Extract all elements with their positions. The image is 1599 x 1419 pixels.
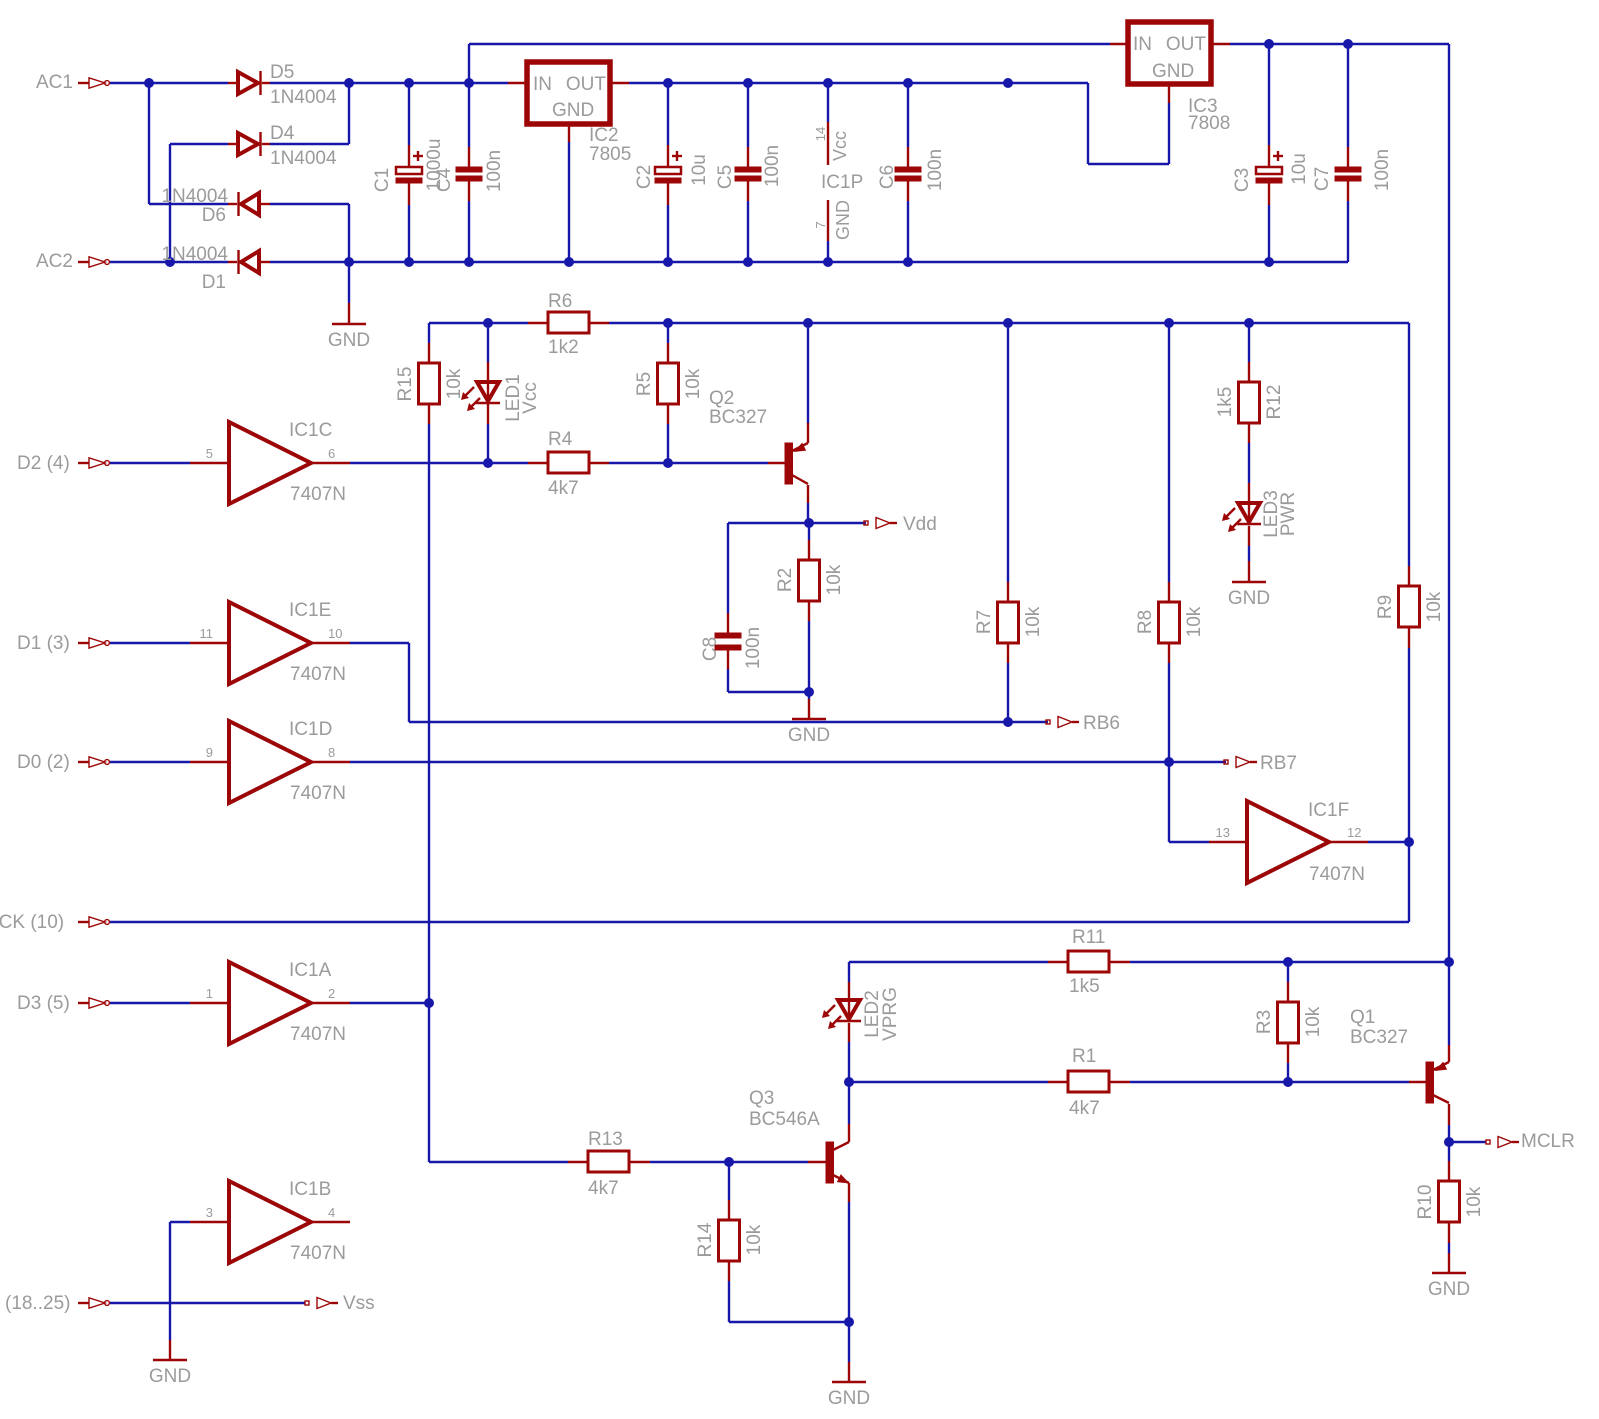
svg-text:D5: D5 bbox=[270, 62, 294, 83]
svg-text:(18..25): (18..25) bbox=[5, 1293, 70, 1314]
svg-text:PWR: PWR bbox=[1278, 492, 1299, 536]
svg-text:1N4004: 1N4004 bbox=[270, 148, 337, 169]
svg-text:GND: GND bbox=[833, 200, 853, 240]
svg-text:R4: R4 bbox=[548, 429, 573, 450]
svg-text:10k: 10k bbox=[824, 564, 845, 595]
svg-text:R15: R15 bbox=[395, 367, 416, 402]
svg-text:4k7: 4k7 bbox=[1069, 1098, 1100, 1119]
svg-text:10k: 10k bbox=[1184, 606, 1205, 637]
svg-text:Vcc: Vcc bbox=[830, 131, 850, 161]
svg-text:R13: R13 bbox=[588, 1129, 623, 1150]
svg-text:7805: 7805 bbox=[589, 144, 631, 165]
svg-text:100n: 100n bbox=[762, 145, 783, 187]
svg-text:C1: C1 bbox=[372, 168, 393, 192]
svg-text:Q2: Q2 bbox=[709, 388, 734, 409]
svg-text:IC1B: IC1B bbox=[289, 1179, 331, 1200]
svg-text:GND: GND bbox=[1428, 1279, 1470, 1300]
svg-text:C2: C2 bbox=[634, 165, 655, 189]
svg-text:IC1D: IC1D bbox=[289, 719, 332, 740]
svg-text:7407N: 7407N bbox=[290, 1243, 346, 1264]
svg-text:R8: R8 bbox=[1135, 610, 1156, 634]
svg-text:Q3: Q3 bbox=[749, 1088, 774, 1109]
svg-text:1N4004: 1N4004 bbox=[161, 244, 228, 265]
svg-text:IC1E: IC1E bbox=[289, 600, 331, 621]
svg-text:R12: R12 bbox=[1264, 385, 1285, 420]
svg-text:1N4004: 1N4004 bbox=[270, 87, 337, 108]
svg-text:7407N: 7407N bbox=[290, 484, 346, 505]
svg-text:10k: 10k bbox=[1303, 1006, 1324, 1037]
svg-text:D1: D1 bbox=[202, 272, 226, 293]
svg-text:C8: C8 bbox=[700, 637, 721, 661]
svg-text:R2: R2 bbox=[775, 568, 796, 592]
svg-text:BC546A: BC546A bbox=[749, 1109, 820, 1130]
svg-text:10u: 10u bbox=[1289, 153, 1310, 185]
svg-text:MCLR: MCLR bbox=[1521, 1131, 1575, 1152]
svg-text:1k5: 1k5 bbox=[1069, 976, 1100, 997]
svg-text:100n: 100n bbox=[484, 150, 505, 192]
svg-text:Vss: Vss bbox=[343, 1293, 375, 1314]
svg-text:C5: C5 bbox=[715, 165, 736, 189]
svg-text:1: 1 bbox=[206, 986, 213, 1001]
svg-text:D2 (4): D2 (4) bbox=[17, 453, 70, 474]
svg-text:GND: GND bbox=[552, 100, 594, 121]
svg-text:8: 8 bbox=[328, 745, 335, 760]
svg-text:10k: 10k bbox=[1023, 606, 1044, 637]
svg-text:D4: D4 bbox=[270, 123, 295, 144]
svg-text:10k: 10k bbox=[683, 368, 704, 399]
svg-text:IC2: IC2 bbox=[589, 125, 619, 146]
svg-text:4k7: 4k7 bbox=[548, 478, 579, 499]
svg-text:R7: R7 bbox=[974, 610, 995, 634]
svg-text:C4: C4 bbox=[434, 167, 455, 192]
svg-text:4k7: 4k7 bbox=[588, 1178, 619, 1199]
svg-text:R3: R3 bbox=[1254, 1010, 1275, 1034]
svg-text:VPRG: VPRG bbox=[880, 987, 901, 1041]
svg-text:OUT: OUT bbox=[1166, 34, 1207, 55]
svg-text:D1 (3): D1 (3) bbox=[17, 633, 70, 654]
svg-text:3: 3 bbox=[206, 1205, 213, 1220]
svg-text:RB7: RB7 bbox=[1260, 753, 1297, 774]
svg-text:C7: C7 bbox=[1312, 167, 1333, 191]
svg-text:GND: GND bbox=[149, 1366, 191, 1387]
svg-text:5: 5 bbox=[206, 446, 213, 461]
svg-text:IC1C: IC1C bbox=[289, 420, 332, 441]
svg-text:BC327: BC327 bbox=[1350, 1027, 1408, 1048]
svg-text:D3 (5): D3 (5) bbox=[17, 993, 70, 1014]
svg-text:4: 4 bbox=[328, 1205, 335, 1220]
svg-text:Q1: Q1 bbox=[1350, 1007, 1375, 1028]
svg-text:1N4004: 1N4004 bbox=[161, 186, 228, 207]
svg-text:1k2: 1k2 bbox=[548, 337, 579, 358]
svg-text:D6: D6 bbox=[202, 205, 226, 226]
svg-text:100n: 100n bbox=[1372, 149, 1393, 191]
svg-text:7407N: 7407N bbox=[290, 664, 346, 685]
svg-text:IC1F: IC1F bbox=[1308, 800, 1349, 821]
svg-text:C6: C6 bbox=[877, 165, 898, 189]
svg-text:7407N: 7407N bbox=[1309, 864, 1365, 885]
svg-text:10u: 10u bbox=[689, 154, 710, 186]
svg-text:R11: R11 bbox=[1072, 927, 1105, 948]
svg-text:12: 12 bbox=[1347, 825, 1361, 840]
svg-text:IC1P: IC1P bbox=[821, 172, 863, 193]
svg-text:10k: 10k bbox=[744, 1224, 765, 1255]
svg-text:2: 2 bbox=[328, 986, 335, 1001]
svg-text:AC2: AC2 bbox=[36, 251, 73, 272]
svg-text:BC327: BC327 bbox=[709, 407, 767, 428]
svg-text:R6: R6 bbox=[548, 291, 572, 312]
svg-text:6: 6 bbox=[328, 446, 335, 461]
svg-text:10k: 10k bbox=[1424, 591, 1445, 622]
svg-text:100n: 100n bbox=[743, 627, 764, 669]
svg-text:RB6: RB6 bbox=[1083, 713, 1120, 734]
svg-text:GND: GND bbox=[828, 1388, 870, 1409]
svg-text:11: 11 bbox=[200, 626, 214, 641]
svg-text:9: 9 bbox=[206, 745, 213, 760]
svg-text:13: 13 bbox=[1216, 825, 1230, 840]
svg-text:IN: IN bbox=[533, 74, 552, 95]
svg-text:7808: 7808 bbox=[1188, 113, 1230, 134]
svg-text:OUT: OUT bbox=[566, 74, 607, 95]
svg-text:Vcc: Vcc bbox=[520, 382, 541, 414]
svg-text:R9: R9 bbox=[1375, 595, 1396, 619]
svg-text:GND: GND bbox=[1152, 61, 1194, 82]
svg-text:10: 10 bbox=[328, 626, 342, 641]
svg-text:R5: R5 bbox=[634, 372, 655, 396]
svg-text:7: 7 bbox=[813, 221, 828, 228]
svg-text:IC1A: IC1A bbox=[289, 960, 332, 981]
svg-text:10k: 10k bbox=[1464, 1186, 1485, 1217]
svg-text:GND: GND bbox=[1228, 588, 1270, 609]
svg-text:IN: IN bbox=[1133, 34, 1152, 55]
svg-text:R14: R14 bbox=[695, 1222, 716, 1257]
svg-text:7407N: 7407N bbox=[290, 783, 346, 804]
svg-text:7407N: 7407N bbox=[290, 1024, 346, 1045]
svg-text:AC1: AC1 bbox=[36, 72, 73, 93]
svg-text:100n: 100n bbox=[925, 149, 946, 191]
svg-text:ACK (10): ACK (10) bbox=[0, 912, 64, 933]
svg-text:14: 14 bbox=[813, 127, 828, 141]
svg-text:GND: GND bbox=[328, 330, 370, 351]
svg-text:GND: GND bbox=[788, 725, 830, 746]
svg-text:D0 (2): D0 (2) bbox=[17, 752, 70, 773]
svg-text:R1: R1 bbox=[1072, 1046, 1096, 1067]
svg-text:R10: R10 bbox=[1415, 1185, 1436, 1220]
svg-text:1k5: 1k5 bbox=[1215, 387, 1236, 418]
svg-text:Vdd: Vdd bbox=[903, 514, 937, 535]
svg-text:10k: 10k bbox=[444, 368, 465, 399]
svg-text:C3: C3 bbox=[1232, 168, 1253, 192]
